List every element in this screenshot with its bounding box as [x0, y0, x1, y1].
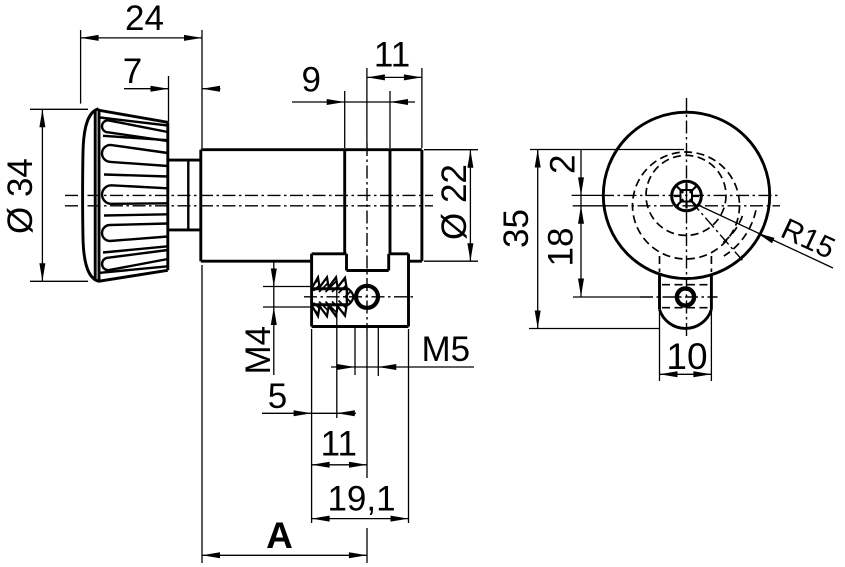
svg-text:24: 24	[125, 0, 164, 38]
svg-text:11: 11	[374, 36, 410, 75]
svg-text:M4: M4	[239, 326, 278, 375]
svg-text:Ø 34: Ø 34	[1, 158, 40, 234]
svg-text:A: A	[266, 515, 293, 556]
svg-text:19,1: 19,1	[327, 480, 395, 519]
svg-text:5: 5	[268, 377, 287, 416]
svg-text:7: 7	[123, 52, 142, 91]
svg-text:2: 2	[544, 155, 583, 174]
svg-text:18: 18	[542, 228, 581, 267]
svg-text:9: 9	[301, 61, 320, 100]
svg-text:11: 11	[321, 424, 357, 463]
svg-text:10: 10	[666, 336, 707, 377]
svg-text:Ø 22: Ø 22	[435, 164, 474, 240]
svg-text:35: 35	[497, 209, 536, 248]
svg-text:M5: M5	[422, 330, 471, 369]
